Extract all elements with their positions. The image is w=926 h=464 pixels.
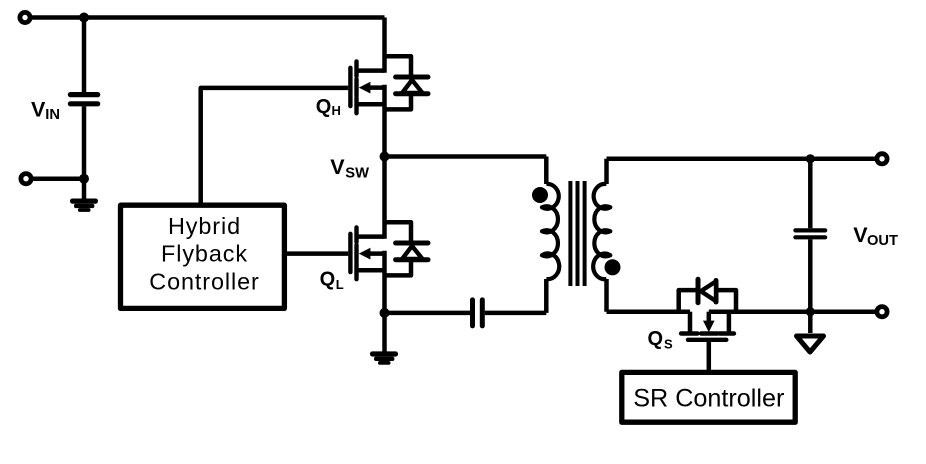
wire controller to Q_H gate: [201, 88, 349, 205]
Q_H channel bar segments: [354, 61, 358, 113]
Q_S gate lead to SR controller: [707, 340, 712, 372]
node junction dot Q_L source: [380, 308, 390, 318]
node junction dot output bottom: [806, 307, 815, 316]
wire Q_S source to output -: [709, 309, 882, 314]
Q_S gate bar: [688, 338, 726, 342]
svg-text:Flyback: Flyback: [161, 241, 248, 267]
input terminal +: [20, 12, 30, 22]
wire V_SW down to Q_L drain: [382, 157, 387, 239]
svg-text:S: S: [664, 336, 673, 351]
output terminal -: [877, 307, 887, 317]
transformer T1 core: [570, 181, 584, 286]
wire Q_H source to V_SW node: [382, 85, 387, 157]
Q_S source stub: [727, 312, 732, 334]
svg-text:SR Controller: SR Controller: [633, 384, 784, 412]
output terminal +: [877, 154, 887, 164]
Q_H body diode branch bottom: [385, 96, 412, 109]
svg-text:H: H: [332, 103, 341, 118]
Q_S body diode D_S: [698, 279, 716, 302]
svg-text:Controller: Controller: [149, 269, 259, 295]
transformer T1 secondary dot: [605, 259, 621, 275]
ground Q_L (signal ground): [370, 351, 398, 364]
capacitor C_OUT: [793, 228, 827, 239]
ground input (signal ground): [70, 199, 98, 212]
wire input - terminal to junction: [26, 176, 84, 181]
wire V_SW to transformer primary: [385, 154, 547, 159]
node junction dot bottom-left: [79, 174, 89, 184]
wire secondary top to output +: [607, 157, 883, 162]
wire to Q_L ground: [382, 313, 387, 352]
Q_L body diode D_L: [396, 243, 428, 260]
Q_L body diode branch bottom: [385, 262, 412, 275]
capacitor Cr (resonant capacitor): [470, 297, 485, 328]
wire V_IN cap top: [82, 18, 87, 93]
wire secondary bottom to Q_S: [607, 309, 691, 314]
Q_L channel bar segments: [354, 227, 358, 279]
wire resonant capacitor to primary: [485, 311, 547, 316]
ground output (chassis triangle): [797, 336, 824, 352]
Q_S body diode branch left: [679, 290, 696, 312]
transformer T1 primary winding: [544, 157, 549, 313]
Q_H source bottom connection: [357, 102, 385, 107]
Q_S channel bar segments: [681, 331, 734, 335]
wire V_IN cap bottom: [82, 106, 87, 178]
Q_L gate bar: [348, 234, 352, 272]
wire Q_L source to resonant capacitor: [385, 311, 471, 316]
Q_L body diode branch top: [385, 222, 412, 240]
Q_L source mid connection: [366, 251, 385, 256]
Q_H body diode branch top: [385, 56, 412, 74]
svg-text:Q: Q: [648, 328, 664, 350]
Hybrid Flyback Controller box U1: [121, 205, 285, 308]
node V_SW junction dot: [380, 152, 390, 162]
wire to input ground: [82, 179, 87, 199]
Q_L source bottom connection: [357, 268, 385, 273]
svg-text:SW: SW: [345, 165, 369, 181]
Q_S source mid connection with arrow: [707, 312, 712, 322]
Q_H source arrow: [359, 82, 371, 94]
svg-text:L: L: [336, 277, 344, 292]
wire Q_H drain vertical from rail: [382, 18, 387, 73]
Q_L source arrow: [359, 248, 371, 260]
Q_H body diode D_H: [396, 77, 428, 94]
transformer T1 secondary winding: [604, 159, 609, 312]
Q_L drain connection: [357, 234, 385, 239]
wire output cap top: [808, 159, 813, 229]
svg-text:V: V: [31, 97, 46, 121]
transistor Q_L (low-side MOSFET): [350, 227, 356, 279]
SR Controller box U2: [622, 372, 795, 422]
capacitor C_IN: [68, 92, 101, 106]
svg-text:OUT: OUT: [867, 233, 898, 249]
Q_H drain connection: [357, 68, 385, 73]
Q_H gate bar: [348, 68, 352, 106]
svg-text:Q: Q: [320, 268, 336, 290]
svg-text:Hybrid: Hybrid: [168, 213, 241, 239]
wire Q_L source down: [382, 251, 387, 313]
wire output cap bottom: [808, 239, 813, 311]
Q_H source mid connection: [366, 85, 385, 90]
svg-text:V: V: [330, 155, 345, 179]
Q_S body diode branch right: [716, 290, 736, 312]
input terminal -: [21, 174, 31, 184]
node junction dot output top: [806, 154, 815, 163]
wire top rail from input+ terminal to Q_H drain: [25, 15, 385, 20]
wire controller to Q_L gate: [284, 251, 348, 256]
node junction dot top-left: [79, 13, 89, 23]
svg-text:IN: IN: [45, 107, 60, 123]
transistor Q_H (high-side MOSFET): [350, 61, 356, 113]
Q_S drain stub: [688, 312, 693, 334]
wire to output ground: [808, 312, 813, 333]
svg-text:Q: Q: [316, 96, 332, 118]
transformer T1 primary dot: [532, 187, 548, 203]
